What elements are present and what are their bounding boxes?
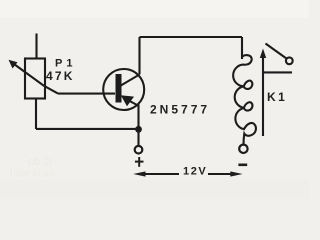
wire base	[58, 93, 115, 95]
transistor Q1 circle	[103, 69, 144, 110]
arrowhead right of 12V	[230, 171, 242, 176]
svg-text:2N5777: 2N5777	[150, 103, 210, 117]
transistor base bar	[116, 74, 122, 103]
relay contact blade	[266, 44, 287, 59]
transistor emitter arrowhead	[121, 95, 134, 106]
wire relay down	[241, 37, 243, 59]
wire P1 top	[35, 34, 37, 59]
svg-text:P1: P1	[55, 58, 76, 70]
label minus	[238, 164, 247, 167]
svg-text:ob 2i: ob 2i	[28, 156, 52, 168]
relay armature arrowhead	[260, 49, 266, 59]
wire top rail	[140, 36, 243, 38]
relay contact wire	[263, 71, 292, 73]
potentiometer wiper arrowhead	[9, 60, 18, 69]
wire emitter down	[137, 105, 139, 147]
arrowhead left of 12V	[133, 171, 145, 176]
relay coil K1	[233, 55, 256, 144]
terminal - circle	[239, 145, 247, 153]
terminal + circle	[135, 146, 143, 154]
potentiometer wiper arrow line	[11, 62, 59, 94]
junction dot	[135, 126, 142, 133]
wire collector up	[138, 37, 140, 75]
svg-text:47K: 47K	[46, 69, 75, 83]
transistor emitter line	[124, 98, 138, 106]
relay armature line	[262, 55, 264, 136]
svg-text:12V: 12V	[183, 166, 207, 178]
relay fixed contact circle	[286, 57, 293, 64]
12V dimension arrow right segment	[208, 173, 233, 175]
label plus	[135, 157, 144, 167]
wire bottom rail to emitter junction	[36, 128, 139, 130]
12V dimension arrow left segment	[143, 173, 179, 175]
wire P1 bottom	[35, 99, 37, 130]
transistor collector line	[121, 75, 140, 86]
potentiometer P1 body	[25, 59, 45, 99]
svg-text:hupr io po: hupr io po	[10, 168, 55, 179]
svg-text:K1: K1	[267, 90, 287, 104]
bleedthrough smudge	[10, 156, 55, 179]
